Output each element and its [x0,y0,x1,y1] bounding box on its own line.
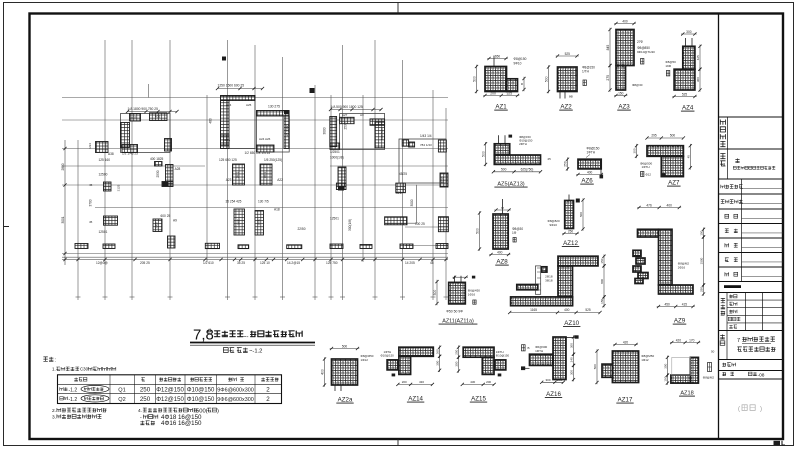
svg-text:400: 400 [587,171,593,175]
svg-text:125 10: 125 10 [260,261,270,265]
svg-text:476: 476 [646,204,652,208]
drawing subtitle [223,348,262,355]
column section AZ9 [633,204,705,325]
svg-text:A23: A23 [131,116,137,120]
column section AZ16 [521,335,579,398]
svg-text:1/A 500 900 1800 125: 1/A 500 900 1800 125 [331,105,363,109]
svg-text:27Φ: 27Φ [637,40,644,44]
svg-text:AZ14: AZ14 [408,396,423,403]
svg-text:2Φ16: 2Φ16 [678,266,686,270]
svg-text:Φ12@150: Φ12@150 [156,388,184,394]
svg-text:480: 480 [209,118,213,124]
svg-text:AZ8: AZ8 [496,259,508,266]
plan wall R11 [438,140,446,152]
svg-text:525: 525 [565,52,571,56]
plan wall R5 [330,143,340,149]
svg-text:): ) [760,407,762,413]
svg-text:9Φ10@TH30: 9Φ10@TH30 [637,50,655,54]
svg-text:2: 2 [266,396,270,403]
plan wall M6 [257,145,275,152]
plan bottom wall band [75,236,448,249]
title block cell 审定 [725,209,783,224]
note 3 [52,414,101,420]
column section AZ12 [548,195,585,248]
svg-text:130 275: 130 275 [268,105,280,109]
svg-text:1/43 1/4: 1/43 1/4 [420,134,432,138]
svg-text:300: 300 [686,30,692,34]
svg-text:45/25: 45/25 [399,172,407,176]
svg-text:A27: A27 [342,113,348,117]
svg-text:300: 300 [436,360,440,365]
svg-text:150: 150 [600,298,604,303]
svg-text:AZ4: AZ4 [682,105,694,112]
plan right room2 outline [399,139,446,183]
svg-text:3000: 3000 [410,199,414,206]
svg-text:45: 45 [686,155,690,159]
svg-text:600 25: 600 25 [161,214,171,218]
svg-text:500: 500 [476,228,480,234]
plan wall L7 [155,162,163,167]
plan wall R10 [385,217,407,225]
svg-text:300(1/8): 300(1/8) [348,219,352,231]
svg-text:300: 300 [633,148,637,153]
svg-text:A28a: A28a [223,138,230,142]
svg-text:Φ12@150: Φ12@150 [156,397,184,403]
svg-text:500: 500 [501,167,507,171]
svg-text:300: 300 [663,363,667,368]
plan left dimension chain [61,140,67,265]
svg-text:2ΦTH: 2ΦTH [519,142,527,146]
svg-text:Φ12: Φ12 [646,173,652,177]
svg-text:C30: C30 [80,367,89,372]
svg-text:300: 300 [570,370,574,375]
svg-text:420: 420 [676,339,682,343]
title block cell 审核 [725,224,783,239]
column section AZ7 [633,134,692,187]
svg-text:9Φ6@600x300: 9Φ6@600x300 [217,388,253,394]
svg-text:AZ1: AZ1 [495,104,507,111]
svg-text:12@0@: 12@0@ [96,261,108,265]
svg-text:A23: A23 [226,178,232,182]
plan wall M8 [260,164,272,185]
plan wall R14 [409,142,415,147]
svg-text:AZ17: AZ17 [618,397,633,404]
svg-text:250: 250 [140,387,151,394]
svg-text:1000(1/8): 1000(1/8) [330,156,344,160]
svg-text:-08: -08 [758,372,765,378]
svg-text:525: 525 [585,308,591,312]
svg-text:240: 240 [557,378,562,382]
column section AZ11(AZ11a) [433,276,480,325]
plan wall M5 [284,116,289,149]
svg-text:22/50: 22/50 [298,227,306,231]
svg-text:Q1: Q1 [118,388,125,394]
svg-text:A36: A36 [155,115,161,119]
drawing title 7,8# plan title [190,327,315,346]
svg-text:2.: 2. [52,408,56,414]
plan wall R7 [338,167,346,186]
svg-text:AZ10: AZ10 [564,320,579,327]
svg-text:AZ12: AZ12 [563,240,578,247]
svg-text:1Φ12: 1Φ12 [641,358,649,362]
svg-text:300: 300 [570,343,574,348]
svg-text:1ΦTH: 1ΦTH [642,165,650,169]
svg-text:784 1/43: 784 1/43 [420,143,432,147]
column section AZ10 [508,254,605,327]
svg-text::: : [55,358,56,364]
svg-text:150: 150 [600,258,604,263]
svg-text:3000: 3000 [323,127,327,134]
svg-text:4.: 4. [138,408,142,414]
svg-text:1ΦTH: 1ΦTH [535,349,543,353]
svg-text:B: B [520,83,524,85]
title block cell 项目 [720,149,775,179]
svg-text:500: 500 [670,134,676,138]
svg-text:1Φ: 1Φ [512,231,517,235]
svg-text:AZ2a: AZ2a [338,397,353,404]
svg-text:125 650 125: 125 650 125 [219,158,237,162]
column section AZ2a [321,345,374,404]
rebar table [58,375,282,404]
svg-text:14 205: 14 205 [405,261,415,265]
column section AZ18 [663,339,714,397]
plan wall M7 [233,164,245,185]
svg-text:3000: 3000 [155,222,159,229]
svg-text:AZ18: AZ18 [680,391,693,397]
plan wall L1 [130,114,141,122]
svg-text:8Φ: 8Φ [569,95,574,99]
column section AZ3 [606,20,655,111]
svg-text:3125: 3125 [117,184,121,191]
svg-text:Φ10@150: Φ10@150 [187,388,215,394]
svg-text:A28: A28 [175,167,181,171]
svg-text:3.: 3. [52,414,56,420]
note 2 [52,408,107,414]
svg-text:200: 200 [486,380,491,384]
svg-text:50: 50 [711,350,715,354]
column section AZ2 [545,52,596,111]
svg-text:A25: A25 [246,103,252,107]
svg-text:170: 170 [689,339,695,343]
fold marks [4,3,398,446]
svg-text:1/2501: 1/2501 [330,150,340,154]
svg-text:500: 500 [593,364,597,369]
svg-text:A3: A3 [360,113,364,117]
svg-text:AZ2: AZ2 [560,104,572,111]
svg-text:400: 400 [497,251,503,255]
svg-text:400: 400 [622,20,628,24]
plan wall L2 [150,113,168,121]
svg-text:525: 525 [682,93,688,97]
svg-text:(: ( [738,407,740,413]
svg-text:130 7/5: 130 7/5 [258,200,269,204]
svg-text:14.2@15: 14.2@15 [287,261,300,265]
svg-text:35 25: 35 25 [237,261,245,265]
plan wall M2 [221,101,230,146]
svg-text:1250 1500 600 25: 1250 1500 600 25 [218,84,245,88]
plan wall L5 [165,139,172,152]
svg-text:845: 845 [606,45,610,51]
plan middle room outlines [221,96,290,153]
svg-text:12500: 12500 [99,173,108,177]
svg-text:Φ8@150: Φ8@150 [514,57,527,61]
svg-text:-1.2: -1.2 [69,388,78,394]
svg-text:1/TH: 1/TH [582,70,590,74]
svg-text:500: 500 [482,151,486,157]
plan wall L11 [104,216,118,225]
svg-text:~-1.2: ~-1.2 [249,349,262,355]
svg-text:AZ15: AZ15 [471,396,486,403]
svg-text:250: 250 [140,396,151,403]
plan wall R8 [336,183,346,189]
svg-text:9Φ10: 9Φ10 [514,62,522,66]
svg-text:420: 420 [623,341,629,345]
svg-text:1831: 1831 [236,171,240,178]
column section AZ5(AZ13) [482,135,552,188]
note 4 line 2 [140,414,202,421]
svg-text:240: 240 [570,357,574,362]
svg-text:A22: A22 [277,178,283,182]
svg-text:625(750): 625(750) [521,167,534,171]
svg-text:Φ8@M2: Φ8@M2 [703,376,715,380]
svg-text:12501: 12501 [330,217,339,221]
svg-text:250: 250 [564,161,568,167]
svg-text:1/A 1800 900 750 25: 1/A 1800 900 750 25 [128,107,159,111]
svg-text:A24 A26: A24 A26 [259,137,271,141]
svg-text:1Φ16: 1Φ16 [468,292,476,296]
svg-text:150: 150 [618,92,624,96]
svg-text:19Φ: 19Φ [665,64,671,68]
svg-text:500x500: 500x500 [380,128,384,140]
plan wall M4 [257,111,290,117]
svg-text:1500: 1500 [700,257,704,264]
plan wall M9 [234,209,245,235]
svg-text:45: 45 [430,261,434,265]
svg-text:3001: 3001 [61,216,65,223]
column section AZ1 [473,55,527,111]
column section AZ4 [665,30,701,112]
svg-text:150: 150 [663,376,667,381]
plan dimension texts [89,84,432,235]
svg-text:300: 300 [545,378,550,382]
plan vertical dimension texts [88,118,445,231]
title block row lines [719,117,784,379]
svg-text:295: 295 [651,134,657,138]
svg-text:400 1825: 400 1825 [150,157,164,161]
svg-text:200: 200 [402,380,407,384]
svg-text:430: 430 [470,380,475,384]
title block cell 设计 [725,253,783,268]
title block date bar [724,285,741,288]
svg-text:45: 45 [89,183,93,187]
title block cell 工程号 [722,363,735,367]
svg-text:3600: 3600 [257,218,261,225]
svg-text:325: 325 [507,92,513,96]
svg-text:125 160: 125 160 [99,158,111,162]
column section AZ17 [593,341,654,404]
svg-text:3700: 3700 [89,199,93,206]
svg-text:300: 300 [696,77,700,82]
svg-text:400: 400 [321,369,325,375]
svg-text:200: 200 [490,92,496,96]
title block cell 建设单位 [720,117,727,149]
title block cell 工程负责人 [721,194,783,209]
svg-text:Φ10@150: Φ10@150 [496,354,510,358]
svg-text:500: 500 [342,345,348,349]
svg-text:3Φ18: 3Φ18 [545,279,553,283]
svg-text:45 2300: 45 2300 [286,125,290,137]
svg-text:AZ7: AZ7 [668,180,680,187]
svg-text:-1.2: -1.2 [69,397,78,403]
svg-text:800: 800 [600,279,604,284]
svg-text:125 750: 125 750 [326,261,338,265]
svg-text:4Φ16 16@150: 4Φ16 16@150 [161,420,202,427]
svg-text:275: 275 [606,75,610,81]
svg-text:AZ16: AZ16 [546,391,561,398]
svg-text:430: 430 [419,380,424,384]
title block frame [718,14,720,440]
svg-text:25: 25 [548,157,552,161]
svg-text:500: 500 [433,290,437,296]
plan wall M10 [255,211,264,236]
svg-text:Φ50 50 9Φ: Φ50 50 9Φ [446,310,463,314]
svg-text:A38: A38 [108,152,114,156]
svg-text:45: 45 [89,220,93,224]
svg-text:450: 450 [664,303,670,307]
title block sign-in column 会签栏 [721,293,783,331]
note 4 [138,408,219,414]
svg-text:425: 425 [696,55,700,60]
svg-text:AZ3: AZ3 [618,104,630,111]
column section AZ14 [381,345,442,402]
title block project name [720,331,775,360]
svg-text:250: 250 [700,287,704,292]
svg-text:): ) [217,408,219,414]
plan top dim lines [126,87,383,113]
svg-text:2530: 2530 [156,170,160,177]
svg-text:A9: A9 [173,219,177,223]
plan wall R1 [330,117,337,147]
title block watermark [738,405,762,413]
plan wall R6 [402,140,408,146]
plan wall L8 [166,165,174,186]
plan wall L3 [121,123,130,148]
svg-text:35 254 425: 35 254 425 [226,200,242,204]
svg-text:Q2: Q2 [118,397,125,403]
svg-text:500: 500 [545,76,549,82]
plan wall R3 [370,119,385,125]
svg-text:1/5 250(125): 1/5 250(125) [264,158,282,162]
plan wall R13 [438,217,448,232]
svg-text:400: 400 [564,308,570,312]
svg-text:1.: 1. [52,367,56,372]
svg-text:A26: A26 [396,191,402,195]
svg-text:#: # [208,329,212,336]
svg-text:2: 2 [266,387,270,394]
svg-text:250: 250 [455,349,459,354]
svg-text:9Φ6@600x300: 9Φ6@600x300 [217,397,253,403]
svg-text:Φ10@150: Φ10@150 [381,354,395,358]
svg-text:1Φ12: 1Φ12 [361,358,369,362]
svg-text:3400: 3400 [237,218,241,225]
svg-text:1ΦTH: 1ΦTH [587,151,596,155]
svg-text:AZ11(AZ11a): AZ11(AZ11a) [442,319,474,325]
column section AZ6 [564,147,604,185]
svg-text:360: 360 [436,349,440,354]
title block cell 制图 [725,267,783,282]
svg-text:500: 500 [473,76,477,82]
svg-text:12501: 12501 [99,230,108,234]
svg-text:A18: A18 [274,208,280,212]
note 1 [52,367,116,372]
plan wall R4 [375,122,385,148]
svg-text:300: 300 [455,361,459,366]
plan wall L10 [104,182,112,191]
svg-text:7: 7 [737,338,740,344]
svg-text:Φ8@30: Φ8@30 [632,83,643,87]
title block cell 校对 [725,238,783,253]
svg-text:1/2 610: 1/2 610 [203,261,214,265]
svg-text:400: 400 [667,204,673,208]
svg-text:1/2 1/43 25: 1/2 1/43 25 [122,152,138,156]
plan wall L6 [96,142,109,153]
svg-text:1/2 650 1/8 1/4 25: 1/2 650 1/8 1/4 25 [245,151,271,155]
plan left room outline [121,114,171,153]
svg-text:1165: 1165 [530,308,537,312]
column section AZ8 [476,199,524,266]
svg-text:1831: 1831 [263,171,267,178]
plot stamp bottom right [774,441,786,445]
column section AZ15 [455,345,510,402]
notes heading [43,357,55,364]
plan wall R9 [396,183,406,193]
svg-text:100 25: 100 25 [415,222,425,226]
plan grid lines [62,40,449,300]
svg-text:AZ9: AZ9 [674,318,686,325]
plan bottom dimension row [62,258,448,265]
plan wall R2 [340,117,355,123]
svg-text:3000: 3000 [441,176,445,183]
svg-text:~-: ~- [243,335,249,341]
svg-text:AZ5(AZ13): AZ5(AZ13) [497,182,524,188]
svg-text:150: 150 [700,230,704,235]
svg-text:650: 650 [495,55,501,59]
plan wall L4 [122,145,138,153]
note 4 line 3 [140,420,202,427]
svg-text:415: 415 [682,303,688,307]
svg-text:1/24: 1/24 [88,143,92,149]
svg-text:250: 250 [568,230,574,234]
title block cell 图号 [722,372,764,378]
svg-text:2530: 2530 [344,122,348,129]
svg-text:2800: 2800 [61,163,65,170]
svg-text:Φ10@150: Φ10@150 [187,397,215,403]
svg-text:205 25: 205 25 [140,261,150,265]
plan wall M3 [221,135,230,149]
plan wall R12 [440,173,448,187]
svg-text:500: 500 [579,212,583,217]
plan wall L9 [162,182,173,187]
svg-text:9Φ10: 9Φ10 [550,223,558,227]
svg-text:B: B [528,346,530,350]
title block cell 工程负责人 [721,179,783,194]
plan wall M1 [221,96,256,101]
plan section cut marks [163,57,345,191]
plan wall L12 [153,219,162,232]
plan right room outlines [340,114,417,224]
svg-text:A24: A24 [226,103,232,107]
svg-text:AZ6: AZ6 [581,178,593,185]
